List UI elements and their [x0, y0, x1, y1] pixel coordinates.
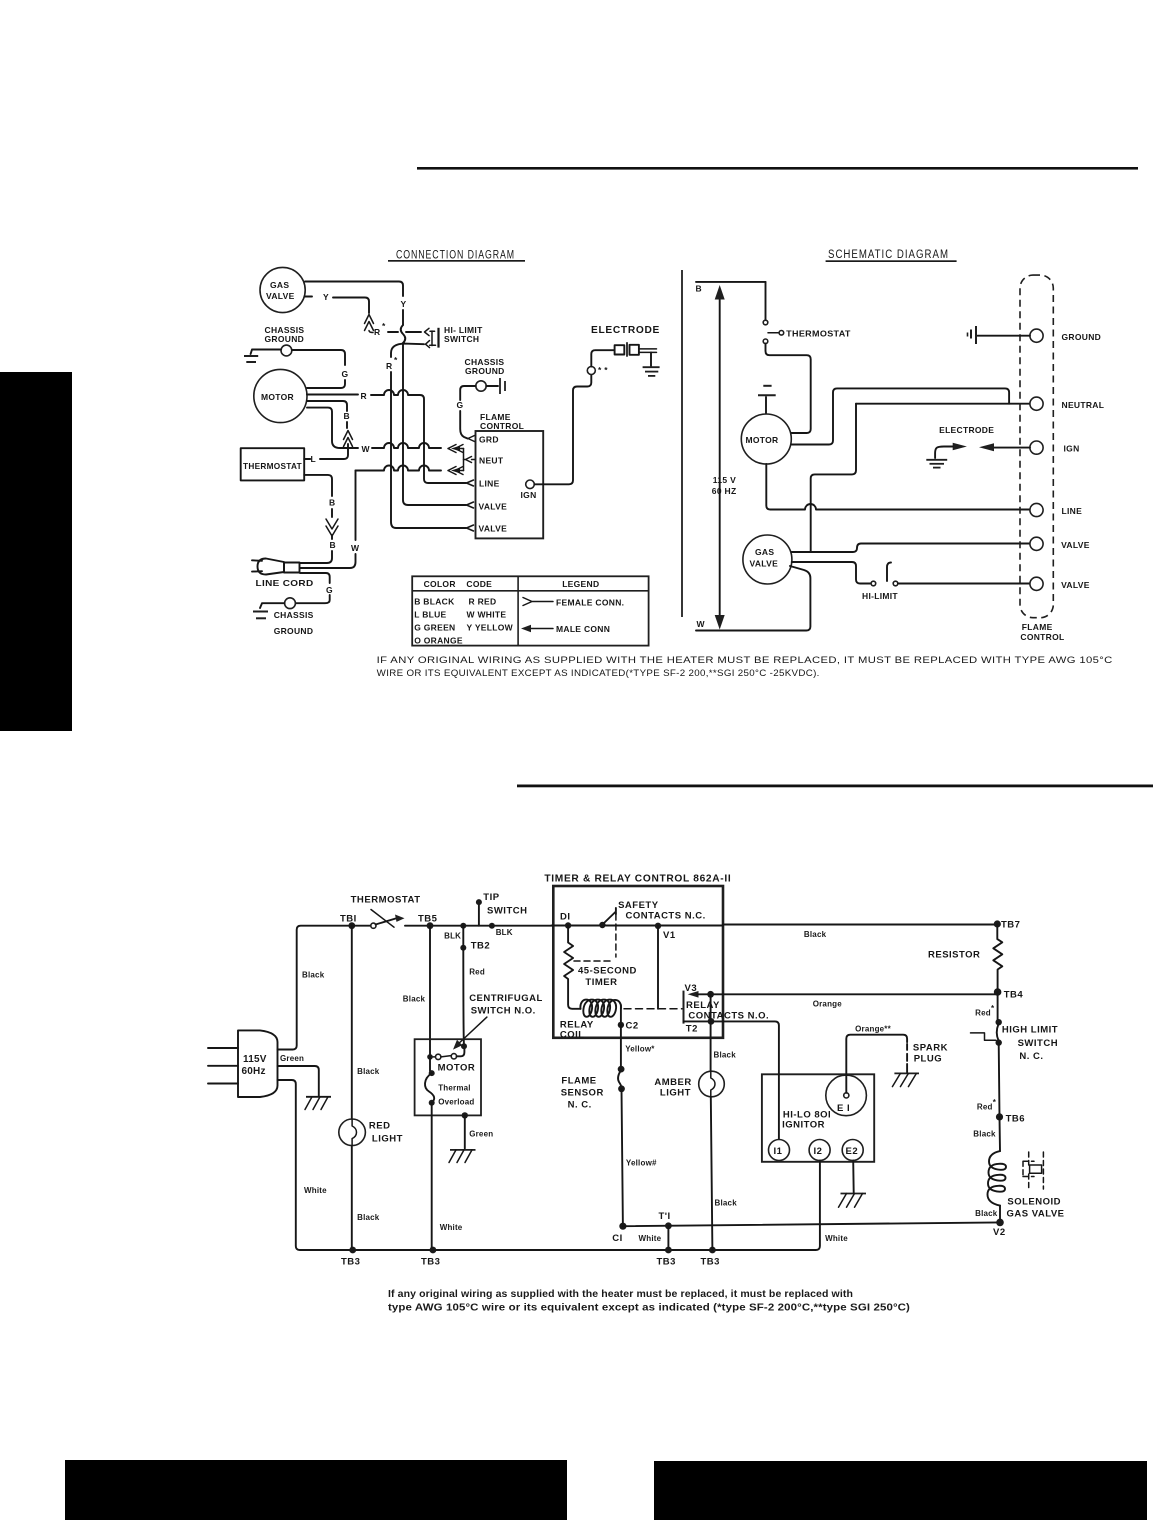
svg-text:MALE CONN: MALE CONN [556, 624, 610, 634]
VALVE2 female connector [467, 525, 474, 531]
legend female connector symbol [523, 598, 624, 608]
node C1 [612, 1223, 626, 1244]
amber light [654, 1071, 724, 1098]
wire yellow flame sensor to C1 [622, 1089, 657, 1226]
svg-text:NEUTRAL: NEUTRAL [1062, 400, 1105, 410]
svg-text:IGNITOR: IGNITOR [782, 1120, 825, 1131]
hi-limit switch (schematic) [862, 563, 898, 602]
wire E2 to ground [852, 1161, 855, 1193]
node B [696, 284, 702, 294]
svg-text:NEUT: NEUT [479, 456, 504, 466]
svg-text:*: * [394, 355, 398, 365]
svg-text:B: B [330, 540, 336, 550]
chassis ground 2 circle [476, 381, 486, 391]
label RELAY CONTACTS N.O. [686, 1000, 769, 1022]
svg-text:BLK: BLK [444, 932, 461, 941]
svg-text:GAS: GAS [755, 547, 774, 557]
thermostat contacts [763, 282, 851, 344]
svg-text:TB7: TB7 [1001, 920, 1020, 931]
svg-text:Black: Black [804, 930, 827, 939]
wire V1 down [657, 926, 659, 1009]
motor [254, 369, 307, 422]
thermal overload element [425, 1057, 435, 1106]
GROUND terminal [1030, 329, 1101, 342]
wire motor to LINE [766, 464, 1030, 510]
svg-text:ELECTRODE: ELECTRODE [591, 324, 660, 336]
hi-limit switch wiggle [401, 325, 406, 343]
chassis ground symbol at GROUND [968, 326, 1030, 344]
bottom bus [352, 1161, 820, 1250]
svg-text:Black: Black [714, 1051, 737, 1060]
electrode spark gap [926, 443, 1030, 468]
svg-text:FLAME: FLAME [561, 1076, 596, 1087]
trunk wire to VALVE upper [386, 344, 466, 528]
svg-text:Red: Red [469, 968, 485, 977]
wire red to TB6 [977, 1043, 1000, 1117]
node V1 [605, 923, 723, 941]
legend table text [414, 579, 599, 646]
wire black T2 to amber light to TB3 [711, 994, 738, 1250]
label CENTRIFUGAL SWITCH N.O. [453, 993, 543, 1050]
svg-text:CONNECTION DIAGRAM: CONNECTION DIAGRAM [396, 250, 515, 262]
svg-text:Black: Black [302, 971, 325, 980]
svg-text:CI: CI [612, 1233, 623, 1244]
svg-text:GROUND: GROUND [465, 366, 505, 376]
ground hatch (spark plug) [892, 1073, 919, 1086]
terminal I2 [809, 1140, 830, 1162]
trunk wire to VALVE lower [403, 343, 466, 505]
hi-limit female connectors and bar [406, 328, 439, 348]
svg-text:Black: Black [357, 1213, 380, 1222]
svg-text:GRD: GRD [479, 435, 499, 445]
terminal E2 [842, 1140, 863, 1161]
svg-text:G: G [342, 369, 349, 379]
relay contact bar [684, 983, 698, 1024]
node TB6 [996, 1113, 1025, 1124]
line cord plug [252, 559, 314, 589]
svg-text:VALVE: VALVE [266, 291, 295, 301]
svg-text:LIGHT: LIGHT [372, 1134, 403, 1145]
svg-text:GAS: GAS [270, 280, 289, 290]
title SCHEMATIC DIAGRAM [826, 249, 957, 262]
node TB4 [994, 988, 1024, 1000]
E1 electrode terminal [826, 1075, 867, 1116]
thermostat box [241, 448, 305, 480]
svg-text:White: White [639, 1234, 662, 1243]
svg-text:L: L [311, 454, 317, 464]
svg-text:THERMOSTAT: THERMOSTAT [786, 329, 851, 339]
svg-text:*: * [993, 1098, 997, 1107]
svg-text:LINE: LINE [479, 479, 500, 489]
svg-text:Yellow*: Yellow* [625, 1045, 655, 1054]
svg-text:TB3: TB3 [421, 1257, 440, 1268]
svg-text:T2: T2 [686, 1024, 698, 1035]
svg-text:CODE: CODE [466, 579, 492, 589]
wire black TB1 to TB3 [352, 926, 380, 1250]
svg-text:W: W [351, 543, 360, 553]
svg-text:IF ANY ORIGINAL WIRING AS SUPP: IF ANY ORIGINAL WIRING AS SUPPLIED WITH … [377, 655, 1113, 665]
node TB3 d [701, 1247, 720, 1268]
svg-text:Red: Red [977, 1103, 993, 1112]
svg-text:DI: DI [560, 912, 571, 923]
svg-text:TIP: TIP [483, 892, 499, 903]
svg-text:V1: V1 [663, 930, 676, 941]
motor (schematic) [741, 414, 791, 464]
svg-text:*: * [991, 1004, 995, 1013]
svg-text:RED: RED [369, 1120, 391, 1131]
chassis ground 1 symbol [244, 350, 281, 363]
svg-text:SCHEMATIC DIAGRAM: SCHEMATIC DIAGRAM [828, 249, 949, 261]
svg-text:White: White [304, 1186, 327, 1195]
svg-text:45-SECOND: 45-SECOND [578, 966, 637, 977]
svg-text:RESISTOR: RESISTOR [928, 950, 980, 961]
svg-text:Black: Black [403, 995, 426, 1004]
bottom caption [388, 1289, 910, 1314]
svg-text:Black: Black [975, 1209, 998, 1218]
legend table frame [412, 576, 648, 645]
male connector chevron down on B wire [326, 519, 338, 536]
svg-text:COLOR: COLOR [424, 579, 456, 589]
wire Y top from gas valve [305, 282, 407, 326]
thermostat switch (bottom) [354, 910, 405, 929]
high limit switch [971, 992, 1059, 1062]
top rule [417, 167, 1138, 170]
node TB3 c [657, 1247, 676, 1268]
wire white motor to TB3 [432, 1103, 463, 1250]
NEUTRAL terminal [1030, 397, 1104, 410]
safety contacts [599, 900, 706, 928]
svg-text:VALVE: VALVE [479, 502, 508, 512]
svg-text:O ORANGE: O ORANGE [414, 636, 463, 646]
wire Y lower from gas valve [305, 292, 369, 313]
wire thermostat to motor [766, 344, 811, 433]
spark plug gap [907, 1043, 948, 1073]
chassis ground 3 symbol [253, 603, 314, 636]
svg-text:Yellow#: Yellow# [626, 1159, 657, 1168]
svg-text:VALVE: VALVE [1061, 580, 1090, 590]
mechanical link dashes (timer) [574, 914, 616, 961]
wire R to hi-limit [388, 331, 398, 333]
flame control box [476, 412, 544, 538]
svg-text:White: White [825, 1234, 848, 1243]
wire B from thermostat to line cord [300, 475, 336, 563]
svg-text:BLK: BLK [496, 928, 513, 937]
left redaction bar [0, 372, 72, 731]
svg-text:IGN: IGN [1064, 444, 1080, 454]
wire T1 to TB3 [667, 1226, 669, 1250]
label Green (plug) [280, 1054, 304, 1063]
legend male connector symbol [521, 624, 610, 634]
node TB3 a [341, 1247, 360, 1268]
svg-text:N. C.: N. C. [568, 1100, 592, 1111]
ignitor box [762, 1074, 874, 1162]
svg-text:TB6: TB6 [1006, 1114, 1025, 1125]
svg-text:SAFETY: SAFETY [618, 900, 659, 911]
gas valve (schematic) [743, 535, 792, 584]
mid rule [517, 785, 1153, 788]
LINE female connector [467, 480, 474, 486]
title CONNECTION DIAGRAM [388, 250, 525, 262]
svg-text:VALVE: VALVE [750, 559, 779, 569]
svg-text:Orange: Orange [813, 1000, 843, 1009]
svg-text:GROUND: GROUND [1062, 332, 1102, 342]
svg-text:TB4: TB4 [1004, 990, 1024, 1001]
45-second timer resistor [564, 926, 637, 1009]
wire valve feed to NEUTRAL [811, 404, 1030, 552]
wire L from thermostat [304, 444, 348, 464]
svg-text:G: G [326, 585, 333, 595]
svg-text:TʹI: TʹI [659, 1211, 671, 1222]
svg-text:CENTRIFUGAL: CENTRIFUGAL [469, 993, 543, 1004]
wire G from line cord [295, 573, 333, 603]
timer box title [544, 873, 731, 885]
wire gas valve to hi-limit [792, 562, 871, 584]
wire black top bus to TB7 [723, 925, 996, 940]
node TB5 [405, 914, 552, 930]
svg-text:R RED: R RED [469, 597, 497, 607]
svg-text:LIGHT: LIGHT [660, 1087, 691, 1098]
svg-text:E I: E I [837, 1103, 850, 1114]
node TB3 b [421, 1247, 440, 1268]
svg-text:Orange**: Orange** [855, 1025, 892, 1034]
svg-text:R: R [374, 327, 380, 337]
svg-text:IGN: IGN [521, 490, 537, 500]
wire from motor joining W [307, 408, 350, 448]
chassis ground 3 circle [285, 598, 296, 609]
svg-text:SPARK: SPARK [913, 1043, 948, 1054]
svg-text:R: R [361, 391, 367, 401]
svg-text:Y: Y [323, 292, 329, 302]
wire bus into box / node D1 [552, 912, 601, 929]
svg-text:CONTROL: CONTROL [480, 421, 524, 431]
svg-text:SWITCH: SWITCH [444, 334, 479, 344]
label HI-LIMIT SWITCH [444, 325, 483, 344]
T2 contact wire [684, 1018, 779, 1074]
wire IGN to electrode [534, 375, 591, 484]
VALVE terminal 1 [1030, 537, 1090, 550]
svg-text:White: White [440, 1223, 463, 1232]
svg-text:L BLUE: L BLUE [414, 610, 446, 620]
svg-text:V2: V2 [993, 1227, 1006, 1238]
svg-text:SENSOR: SENSOR [561, 1087, 604, 1098]
svg-text:TB3: TB3 [657, 1257, 676, 1268]
node C2 [618, 1005, 639, 1032]
tip switch stub [444, 892, 527, 941]
label R* [374, 321, 386, 337]
svg-text:* *: * * [598, 365, 608, 375]
svg-text:E2: E2 [846, 1146, 859, 1157]
ground above motor [758, 386, 776, 414]
svg-text:B: B [344, 411, 350, 421]
svg-text:SOLENOID: SOLENOID [1007, 1197, 1061, 1208]
svg-text:115 V: 115 V [713, 475, 736, 485]
svg-text:B BLACK: B BLACK [414, 597, 455, 607]
node T1 [659, 1211, 672, 1229]
node V2 [993, 1219, 1006, 1238]
electrode ground [643, 353, 660, 376]
svg-text:*: * [382, 321, 386, 331]
IGN terminal [521, 480, 537, 500]
svg-text:Green: Green [280, 1054, 304, 1063]
svg-text:MOTOR: MOTOR [261, 392, 294, 402]
label ELECTRODE [591, 324, 660, 336]
svg-text:HIGH LIMIT: HIGH LIMIT [1002, 1024, 1058, 1035]
resistor [928, 924, 1002, 990]
svg-text:CONTACTS N.C.: CONTACTS N.C. [626, 911, 706, 922]
wire yellow C2 to flame sensor [621, 1025, 655, 1067]
wire black TB5 to motor box [403, 926, 430, 1055]
svg-text:CONTROL: CONTROL [1020, 632, 1064, 642]
svg-text:TIMER & RELAY CONTROL 862A-II: TIMER & RELAY CONTROL 862A-II [544, 873, 731, 885]
flame control dashed box [1020, 275, 1065, 642]
svg-text:B: B [329, 498, 335, 508]
svg-text:G: G [457, 400, 464, 410]
node TB7 [994, 920, 1021, 931]
flame sensor switch [561, 1066, 625, 1111]
svg-text:LINE: LINE [1062, 506, 1083, 516]
svg-text:I2: I2 [814, 1146, 823, 1157]
label ELECTRODE (schematic) [939, 425, 994, 435]
wire orange E1 to spark plug [846, 1025, 907, 1093]
node TB2 [460, 923, 490, 952]
wire W lower to NEUT [356, 466, 442, 471]
ground hatch (motor) [449, 1150, 476, 1163]
wire green to ground [278, 1066, 319, 1096]
svg-text:Thermal: Thermal [438, 1084, 471, 1093]
wire black plug to bus [278, 926, 349, 1050]
label Red* upper [975, 1004, 995, 1018]
male connector chevron on Y/R wire [365, 315, 374, 333]
centrifugal switch contacts [427, 1043, 467, 1059]
svg-text:Black: Black [973, 1130, 996, 1139]
wire G motor to chassis ground [292, 350, 349, 388]
svg-text:COIL: COIL [560, 1030, 585, 1041]
male connector arrows at NEUT (upper) [448, 445, 464, 453]
wire gas valve to VALVE1 [792, 544, 1030, 553]
wire black solenoid to V2 [975, 1206, 1000, 1223]
male connector chevron on L wire [344, 431, 353, 447]
chassis ground 2 label [465, 357, 505, 376]
svg-text:TIMER: TIMER [585, 977, 617, 988]
wire black TB6 to solenoid [973, 1117, 1000, 1151]
svg-text:VALVE: VALVE [1061, 540, 1090, 550]
wire green motor box to ground [462, 1112, 494, 1148]
svg-text:N. C.: N. C. [1019, 1051, 1043, 1062]
svg-text:GAS VALVE: GAS VALVE [1007, 1209, 1065, 1220]
timer box [553, 886, 723, 1038]
wire motor to NEUTRAL [791, 388, 1009, 444]
svg-text:SWITCH N.O.: SWITCH N.O. [471, 1006, 536, 1017]
svg-text:CONTACTS N.O.: CONTACTS N.O. [688, 1011, 769, 1022]
GRD female connector [468, 436, 475, 442]
wire W to NEUT [350, 443, 441, 454]
svg-text:60 HZ: 60 HZ [712, 486, 737, 496]
svg-text:SWITCH: SWITCH [1018, 1038, 1058, 1049]
LINE terminal [1030, 503, 1082, 516]
svg-text:C2: C2 [626, 1021, 639, 1032]
wire W down to line cord [300, 471, 360, 569]
wire B from motor to L connector [307, 401, 350, 428]
svg-text:G GREEN: G GREEN [414, 623, 455, 633]
relay coil [560, 1000, 621, 1041]
svg-text:RELAY: RELAY [686, 1000, 720, 1011]
NEUT bracket [463, 449, 465, 471]
chassis ground 1 circle [281, 345, 292, 356]
svg-text:TB3: TB3 [701, 1257, 720, 1268]
male connector arrows at NEUT (lower) [448, 467, 464, 475]
IGN terminal (schematic) [1030, 441, 1080, 454]
svg-text:TB2: TB2 [471, 941, 490, 952]
svg-text:GROUND: GROUND [265, 334, 305, 344]
label THERMOSTAT (bottom) [351, 895, 421, 906]
svg-text:type AWG 105°C wire or its equ: type AWG 105°C wire or its equivalent ex… [388, 1303, 910, 1314]
svg-text:TB5: TB5 [418, 914, 438, 925]
note text top [377, 655, 1113, 678]
svg-text:FLAME: FLAME [1022, 622, 1053, 632]
svg-text:60Hz: 60Hz [242, 1066, 266, 1077]
svg-text:W: W [697, 619, 706, 629]
bottom redaction bar 1 [65, 1460, 567, 1520]
red light [339, 1119, 403, 1146]
wire G to GRD input [457, 386, 476, 439]
V3 contact arrow and wire to TB4 [688, 991, 996, 1009]
svg-text:Green: Green [469, 1129, 493, 1138]
wire R from motor to LINE [307, 390, 466, 483]
chassis ground 2 bars [486, 378, 505, 394]
svg-text:R: R [386, 361, 392, 371]
wire hi-limit to VALVE2 [898, 583, 1030, 585]
wire T1 bus to V2 [623, 1222, 1000, 1243]
svg-text:CHASSIS: CHASSIS [274, 610, 314, 620]
VALVE terminal 2 [1030, 577, 1090, 590]
motor box [415, 1039, 481, 1115]
svg-text:PLUG: PLUG [914, 1054, 942, 1065]
electrode symbol [615, 342, 657, 357]
115V 60Hz plug [208, 1030, 278, 1097]
svg-text:ELECTRODE: ELECTRODE [939, 425, 994, 435]
svg-text:115V: 115V [243, 1054, 267, 1065]
svg-text:I1: I1 [774, 1146, 783, 1157]
svg-text:FEMALE CONN.: FEMALE CONN. [556, 598, 624, 608]
ground hatch (E2) [839, 1194, 867, 1208]
svg-text:Y YELLOW: Y YELLOW [467, 623, 514, 633]
svg-text:Y: Y [401, 299, 407, 309]
svg-text:THERMOSTAT: THERMOSTAT [243, 461, 302, 471]
svg-text:W WHITE: W WHITE [467, 610, 507, 620]
svg-text:WIRE OR ITS EQUIVALENT EXCEPT: WIRE OR ITS EQUIVALENT EXCEPT AS INDICAT… [377, 668, 820, 678]
mechanical link dashes (relay) [624, 1008, 682, 1010]
svg-text:Red: Red [975, 1009, 991, 1018]
svg-text:TB3: TB3 [341, 1257, 360, 1268]
solenoid gas valve coil [988, 1151, 1065, 1219]
svg-text:MOTOR: MOTOR [438, 1063, 476, 1074]
solenoid armature [1023, 1152, 1043, 1189]
svg-text:SWITCH: SWITCH [487, 906, 527, 917]
node TB1 [340, 914, 357, 930]
gas valve [260, 267, 305, 312]
bottom redaction bar 2 [654, 1461, 1147, 1520]
svg-text:VALVE: VALVE [479, 524, 508, 534]
wire W bus [696, 566, 810, 631]
ground hatch (green) [305, 1097, 331, 1110]
svg-text:MOTOR: MOTOR [746, 435, 779, 445]
section divider vertical [681, 270, 683, 617]
wire white plug to bottom bus [278, 1080, 353, 1250]
VALVE1 female connector [467, 502, 474, 508]
NEUT female connector [464, 457, 476, 463]
chassis ground 1 label [265, 325, 305, 344]
terminal I1 [769, 1074, 790, 1161]
